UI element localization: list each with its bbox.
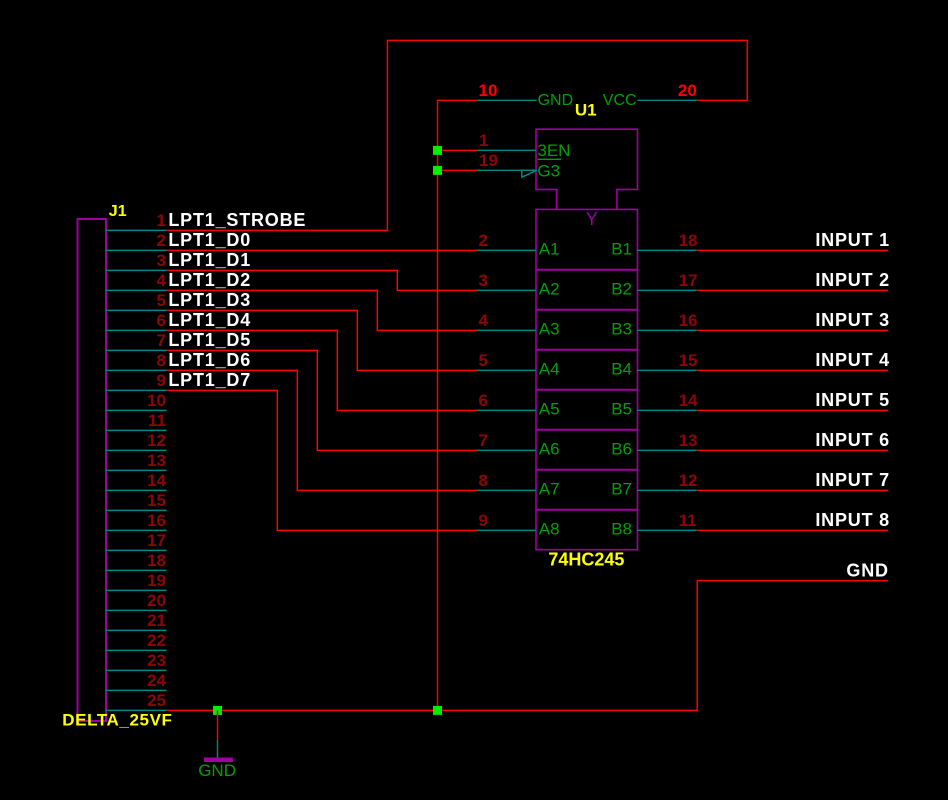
svg-text:25: 25 xyxy=(147,691,166,710)
U1 cell divider 7 xyxy=(536,509,638,511)
svg-text:A2: A2 xyxy=(539,280,560,299)
U1 pin 6 stub (A5) xyxy=(478,409,537,411)
svg-text:U1: U1 xyxy=(575,101,597,120)
svg-text:A8: A8 xyxy=(539,520,560,539)
svg-text:5: 5 xyxy=(157,291,166,310)
wire LPT1_D7 (J1 pin 9 to U1 A8) xyxy=(167,390,478,530)
svg-text:1: 1 xyxy=(157,211,166,230)
svg-text:A6: A6 xyxy=(539,440,560,459)
svg-text:17: 17 xyxy=(679,271,698,290)
svg-text:INPUT 2: INPUT 2 xyxy=(815,270,890,290)
U1 control block outline xyxy=(536,129,638,209)
svg-text:11: 11 xyxy=(148,411,166,430)
U1 pin 14 stub (B5) xyxy=(638,409,697,411)
svg-text:VCC: VCC xyxy=(603,92,637,109)
svg-text:6: 6 xyxy=(479,391,488,410)
U1 pin 13 stub (B6) xyxy=(638,449,697,451)
svg-text:LPT1_D4: LPT1_D4 xyxy=(168,310,251,330)
wire LPT1_D5 (J1 pin 7 to U1 A6) xyxy=(167,350,478,450)
svg-text:INPUT 3: INPUT 3 xyxy=(815,310,890,330)
GND power symbol pin xyxy=(217,740,219,758)
wire INPUT 2 xyxy=(697,289,888,291)
svg-text:18: 18 xyxy=(679,231,698,250)
svg-text:G3: G3 xyxy=(537,161,560,180)
svg-text:14: 14 xyxy=(147,471,166,490)
J1 pin 24 stub xyxy=(106,689,167,691)
J1 pin 23 stub xyxy=(106,669,167,671)
wire LPT1_D1 (J1 pin 3 to U1 A2) xyxy=(167,270,478,290)
junction on bottom wire at GND symbol xyxy=(213,706,222,715)
svg-text:8: 8 xyxy=(479,471,488,490)
U1 pin 3 stub (A2) xyxy=(478,289,537,291)
svg-text:B3: B3 xyxy=(611,320,632,339)
U1 cell divider 4 xyxy=(536,389,638,391)
J1 pin 14 stub xyxy=(106,489,167,491)
U1 pin1 stub xyxy=(478,149,537,151)
U1 pin 17 stub (B2) xyxy=(638,289,697,291)
svg-text:12: 12 xyxy=(147,431,166,450)
svg-text:B8: B8 xyxy=(611,520,632,539)
svg-text:7: 7 xyxy=(479,431,488,450)
svg-text:B7: B7 xyxy=(611,480,632,499)
wire LPT1_D3 (J1 pin 5 to U1 A4) xyxy=(167,310,478,370)
svg-text:2: 2 xyxy=(479,231,488,250)
J1 pin 4 stub xyxy=(106,289,167,291)
U1 pin 7 stub (A6) xyxy=(478,449,537,451)
svg-text:12: 12 xyxy=(679,471,698,490)
svg-text:4: 4 xyxy=(157,271,167,290)
J1 pin 8 stub xyxy=(106,369,167,371)
svg-text:3: 3 xyxy=(157,251,166,270)
J1 pin 1 stub xyxy=(106,229,167,231)
svg-text:24: 24 xyxy=(147,671,166,690)
svg-text:LPT1_STROBE: LPT1_STROBE xyxy=(168,210,306,230)
J1 pin 19 stub xyxy=(106,589,167,591)
wire INPUT 5 xyxy=(697,409,888,411)
svg-text:LPT1_D7: LPT1_D7 xyxy=(168,370,251,390)
inverted input triangle on pin 19 xyxy=(522,170,537,177)
svg-text:1: 1 xyxy=(479,131,488,150)
junction at pin19 wire xyxy=(433,166,442,175)
U1 pin 16 stub (B3) xyxy=(638,329,697,331)
J1 pin 12 stub xyxy=(106,449,167,451)
svg-text:LPT1_D0: LPT1_D0 xyxy=(168,230,251,250)
svg-text:16: 16 xyxy=(679,311,698,330)
wire INPUT 3 xyxy=(697,329,888,331)
svg-text:6: 6 xyxy=(157,311,166,330)
svg-text:INPUT 8: INPUT 8 xyxy=(815,510,890,530)
svg-text:20: 20 xyxy=(678,81,697,100)
svg-text:LPT1_D6: LPT1_D6 xyxy=(168,350,251,370)
svg-text:LPT1_D1: LPT1_D1 xyxy=(168,250,251,270)
svg-text:GND: GND xyxy=(846,561,888,581)
svg-text:10: 10 xyxy=(147,391,166,410)
svg-text:B4: B4 xyxy=(611,360,632,379)
svg-text:18: 18 xyxy=(147,551,166,570)
svg-text:21: 21 xyxy=(147,611,166,630)
svg-text:B2: B2 xyxy=(611,280,632,299)
J1 pin 25 stub xyxy=(106,709,167,711)
J1 pin 13 stub xyxy=(106,469,167,471)
svg-text:13: 13 xyxy=(147,451,166,470)
wire LPT1_D0 (J1 pin 2 to U1 A1) xyxy=(167,249,478,251)
U1 power pin VCC stub xyxy=(637,99,696,101)
svg-text:3: 3 xyxy=(479,271,488,290)
U1 pin 8 stub (A7) xyxy=(478,489,537,491)
J1 pin 17 stub xyxy=(106,549,167,551)
svg-text:2: 2 xyxy=(157,231,166,250)
svg-text:20: 20 xyxy=(147,591,166,610)
U1 cell divider 1 xyxy=(536,269,638,271)
wire INPUT 8 xyxy=(697,529,888,531)
U1 pin 12 stub (B7) xyxy=(638,489,697,491)
U1 cell divider 5 xyxy=(536,429,638,431)
svg-text:9: 9 xyxy=(157,371,166,390)
wire U1 pin19 OE xyxy=(438,169,478,171)
svg-text:B6: B6 xyxy=(611,440,632,459)
svg-text:A3: A3 xyxy=(539,320,560,339)
wire pin10 GND to vertical bus xyxy=(438,100,478,710)
svg-text:J1: J1 xyxy=(109,203,127,220)
J1 pin 15 stub xyxy=(106,509,167,511)
svg-text:11: 11 xyxy=(679,511,697,530)
wire U1 pin1 DIR xyxy=(438,149,478,151)
U1 pin 5 stub (A4) xyxy=(478,369,537,371)
svg-text:15: 15 xyxy=(679,351,698,370)
svg-text:23: 23 xyxy=(147,651,166,670)
svg-text:Y: Y xyxy=(586,209,598,229)
svg-text:GND: GND xyxy=(538,92,574,109)
overline above G3 xyxy=(537,158,561,160)
svg-text:LPT1_D5: LPT1_D5 xyxy=(168,330,251,350)
bottom GND net wire from pin25 xyxy=(167,581,889,711)
wire down to GND symbol xyxy=(217,710,219,740)
U1 pin 2 stub (A1) xyxy=(478,249,537,251)
U1 main body outline xyxy=(536,209,638,549)
wire INPUT 4 xyxy=(697,369,888,371)
svg-text:A4: A4 xyxy=(539,360,560,379)
svg-text:19: 19 xyxy=(479,151,498,170)
connector J1 body xyxy=(78,219,107,721)
wire LPT1_D2 (J1 pin 4 to U1 A3) xyxy=(167,290,478,330)
J1 pin 6 stub xyxy=(106,329,167,331)
J1 pin 21 stub xyxy=(106,629,167,631)
GND power symbol bar xyxy=(204,758,233,763)
U1 pin 15 stub (B4) xyxy=(638,369,697,371)
U1 pin 9 stub (A8) xyxy=(478,529,537,531)
svg-text:22: 22 xyxy=(147,631,166,650)
J1 pin 5 stub xyxy=(106,309,167,311)
svg-text:INPUT 4: INPUT 4 xyxy=(815,350,890,370)
svg-text:INPUT 7: INPUT 7 xyxy=(815,470,890,490)
svg-text:5: 5 xyxy=(479,351,488,370)
svg-text:B5: B5 xyxy=(611,400,632,419)
svg-text:LPT1_D3: LPT1_D3 xyxy=(168,290,251,310)
wire LPT1_D6 (J1 pin 8 to U1 A7) xyxy=(167,370,478,490)
svg-text:8: 8 xyxy=(157,351,166,370)
J1 pin 10 stub xyxy=(106,409,167,411)
J1 pin 7 stub xyxy=(106,349,167,351)
J1 pin 11 stub xyxy=(106,429,167,431)
junction at pin1 wire xyxy=(433,146,442,155)
svg-text:15: 15 xyxy=(147,491,166,510)
svg-text:13: 13 xyxy=(679,431,698,450)
J1 pin 9 stub xyxy=(106,389,167,391)
J1 pin 3 stub xyxy=(106,269,167,271)
svg-text:74HC245: 74HC245 xyxy=(548,550,624,570)
svg-text:16: 16 xyxy=(147,511,166,530)
wire pin1 STROBE to top frame xyxy=(167,40,748,230)
U1 pin 11 stub (B8) xyxy=(638,529,697,531)
junction bottom wire / vertical bus xyxy=(433,706,442,715)
svg-text:A1: A1 xyxy=(539,240,560,259)
U1 cell divider 6 xyxy=(536,469,638,471)
svg-text:7: 7 xyxy=(157,331,166,350)
svg-text:B1: B1 xyxy=(611,240,632,259)
svg-text:10: 10 xyxy=(479,81,498,100)
svg-text:LPT1_D2: LPT1_D2 xyxy=(168,270,251,290)
svg-text:INPUT 6: INPUT 6 xyxy=(815,430,890,450)
svg-text:A7: A7 xyxy=(539,480,560,499)
U1 power pin GND stub xyxy=(478,99,537,101)
svg-text:DELTA_25VF: DELTA_25VF xyxy=(62,711,172,730)
svg-text:17: 17 xyxy=(147,531,166,550)
svg-text:9: 9 xyxy=(479,511,488,530)
J1 pin 18 stub xyxy=(106,569,167,571)
J1 pin 2 stub xyxy=(106,249,167,251)
U1 cell divider 2 xyxy=(536,309,638,311)
svg-text:GND: GND xyxy=(198,761,236,780)
wire INPUT 1 xyxy=(697,249,888,251)
svg-text:14: 14 xyxy=(679,391,698,410)
svg-text:A5: A5 xyxy=(539,400,560,419)
J1 pin 20 stub xyxy=(106,609,167,611)
wire INPUT 6 xyxy=(697,449,888,451)
svg-text:INPUT 1: INPUT 1 xyxy=(815,230,890,250)
svg-text:3EN: 3EN xyxy=(537,141,570,160)
svg-text:4: 4 xyxy=(479,311,489,330)
svg-text:INPUT 5: INPUT 5 xyxy=(815,390,890,410)
J1 pin 16 stub xyxy=(106,529,167,531)
wire INPUT 7 xyxy=(697,489,888,491)
J1 pin 22 stub xyxy=(106,649,167,651)
svg-text:19: 19 xyxy=(147,571,166,590)
U1 cell divider 3 xyxy=(536,349,638,351)
wire LPT1_D4 (J1 pin 6 to U1 A5) xyxy=(167,330,478,410)
U1 pin 4 stub (A3) xyxy=(478,329,537,331)
U1 pin 18 stub (B1) xyxy=(638,249,697,251)
U1 pin19 stub xyxy=(478,169,537,171)
